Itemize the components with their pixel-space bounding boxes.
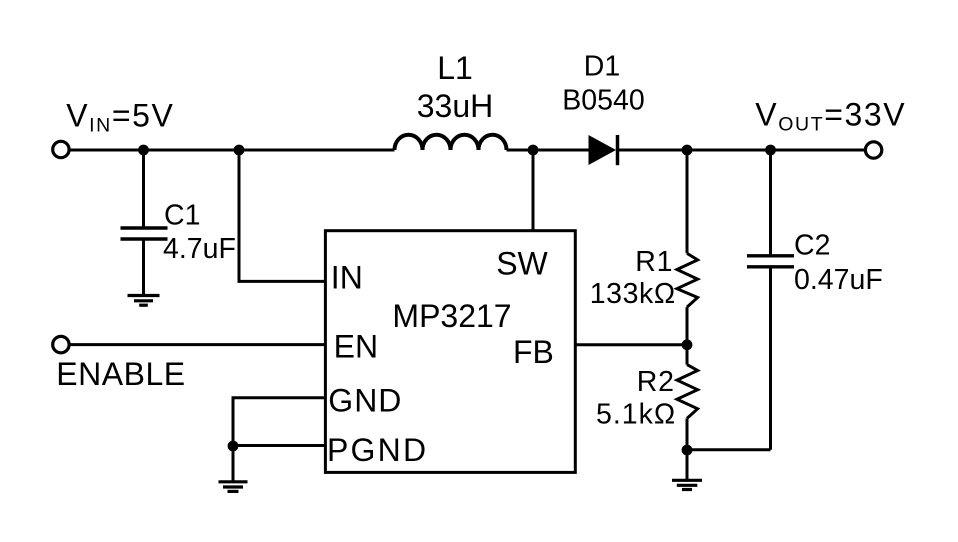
- svg-text:SW: SW: [496, 245, 548, 281]
- node C1 tap: [138, 145, 149, 156]
- svg-text:ENABLE: ENABLE: [56, 356, 185, 392]
- svg-text:5.1kΩ: 5.1kΩ: [596, 399, 676, 431]
- wire ground stem under R2: [686, 450, 689, 479]
- svg-text:MP3217: MP3217: [392, 298, 511, 334]
- svg-text:R1: R1: [635, 246, 673, 278]
- wire R2 bottom lead: [686, 418, 689, 450]
- wire PGND pin connection: [233, 444, 326, 447]
- wire rail inductor to diode: [507, 149, 589, 152]
- terminal VOUT output: [865, 142, 881, 158]
- svg-text:VIN=5V: VIN=5V: [66, 97, 174, 136]
- node C2 tap: [765, 145, 776, 156]
- svg-text:IN: IN: [331, 259, 363, 295]
- svg-text:C1: C1: [164, 200, 200, 232]
- svg-text:0.47uF: 0.47uF: [794, 264, 883, 296]
- ground under PGND: [219, 482, 248, 492]
- wire top rail left segment: [69, 149, 394, 152]
- svg-text:C2: C2: [794, 229, 830, 261]
- terminal VIN input: [53, 141, 69, 157]
- wire R1 bottom lead: [686, 307, 689, 345]
- svg-text:VOUT=33V: VOUT=33V: [755, 96, 906, 135]
- terminal ENABLE input: [53, 336, 69, 352]
- node PGND junction: [228, 441, 239, 452]
- capacitor C1 top lead: [142, 150, 145, 228]
- ground under R2: [672, 480, 702, 489]
- svg-text:D1: D1: [584, 51, 620, 83]
- svg-text:FB: FB: [513, 334, 554, 370]
- svg-text:PGND: PGND: [327, 432, 428, 468]
- inductor L1: [395, 135, 507, 150]
- node FB divider junction: [682, 339, 693, 350]
- wire PGND ground stem: [232, 446, 235, 481]
- resistor R2: [677, 365, 698, 419]
- svg-text:4.7uF: 4.7uF: [163, 233, 236, 265]
- node IN tap: [234, 145, 245, 156]
- capacitor C2 bottom plate: [747, 265, 794, 268]
- svg-text:EN: EN: [334, 328, 378, 364]
- capacitor C2 bottom lead: [769, 267, 772, 450]
- svg-text:B0540: B0540: [562, 84, 644, 116]
- capacitor C1 bottom lead: [142, 239, 145, 295]
- resistor R1: [677, 253, 698, 307]
- wire GND pin connection: [233, 398, 326, 446]
- wire R1 top lead: [686, 150, 689, 253]
- svg-text:R2: R2: [637, 366, 675, 398]
- capacitor C1 top plate: [121, 226, 168, 229]
- svg-text:133kΩ: 133kΩ: [590, 278, 676, 310]
- svg-text:GND: GND: [328, 383, 402, 419]
- capacitor C2 top lead: [769, 150, 772, 256]
- wire top rail right segment: [619, 149, 866, 152]
- wire R2 top lead: [686, 345, 689, 365]
- diode D1 triangle: [589, 135, 617, 165]
- op-amp U1 MP3217 box: [325, 231, 575, 473]
- wire SW pin connection: [532, 150, 535, 232]
- capacitor C2 top plate: [747, 254, 794, 257]
- wire FB pin connection: [575, 343, 688, 346]
- node R1 tap: [682, 145, 693, 156]
- diode D1 cathode bar: [616, 135, 620, 165]
- wire IN pin connection: [239, 150, 326, 281]
- wire R2 bottom to C2 bottom: [687, 448, 771, 451]
- svg-text:33uH: 33uH: [417, 88, 494, 124]
- ground under C1: [128, 296, 160, 306]
- svg-text:L1: L1: [437, 50, 473, 86]
- node SW tap: [528, 145, 539, 156]
- wire EN pin connection: [69, 343, 326, 346]
- node R2 bottom junction: [682, 445, 693, 456]
- capacitor C1 bottom plate: [121, 237, 168, 240]
